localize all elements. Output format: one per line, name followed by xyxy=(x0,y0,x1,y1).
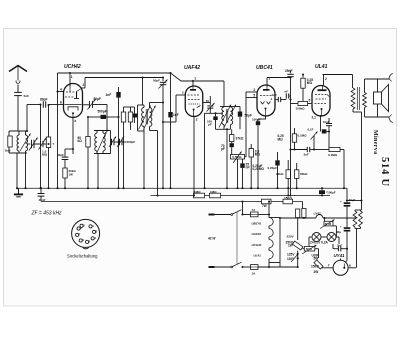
capacitor 0,1µF xyxy=(308,128,331,134)
svg-text:UBC41: UBC41 xyxy=(252,222,262,226)
pilot lamp a xyxy=(309,233,327,242)
IF2 arrows xyxy=(219,105,236,128)
label ZF xyxy=(31,211,63,217)
UBC41 pin2 xyxy=(246,88,257,92)
svg-text:40nF: 40nF xyxy=(39,198,46,202)
pin 1 wire xyxy=(69,72,73,87)
svg-text:660pF: 660pF xyxy=(127,140,136,144)
resistor 50kΩ b xyxy=(124,107,135,130)
capacitor 100µF xyxy=(319,187,336,196)
svg-text:3nF: 3nF xyxy=(304,153,310,157)
thermistor NTC xyxy=(320,217,336,237)
svg-text:50kΩ: 50kΩ xyxy=(300,172,308,176)
osc coil arrow xyxy=(97,132,107,154)
svg-text:UBC41: UBC41 xyxy=(256,65,273,71)
svg-text:0,1MΩ: 0,1MΩ xyxy=(328,153,338,157)
capacitor 1nF osc xyxy=(106,87,121,143)
antenna xyxy=(9,66,27,93)
UBC41 top wire xyxy=(267,76,292,78)
resistor 20kΩ b xyxy=(276,160,290,197)
resistor 0,25MΩ b xyxy=(278,128,297,151)
svg-text:1kΩ: 1kΩ xyxy=(5,149,11,153)
svg-text:42 W: 42 W xyxy=(207,237,216,241)
rail A xyxy=(58,72,171,74)
resistor 50kΩ a xyxy=(121,107,125,189)
svg-text:50pF: 50pF xyxy=(153,79,160,83)
mains switch lower xyxy=(231,262,251,268)
capacitor 500pF xyxy=(87,109,120,119)
svg-text:25nF: 25nF xyxy=(285,69,292,73)
resistor 37kΩ xyxy=(230,129,244,141)
mains plug lower xyxy=(209,266,232,268)
label Sockelschaltung xyxy=(67,254,98,259)
svg-text:5: 5 xyxy=(253,93,255,97)
wire osc grid xyxy=(106,105,108,132)
socket diagram xyxy=(72,219,100,248)
wire IF2 top plate xyxy=(203,112,223,189)
switch link xyxy=(236,212,238,264)
svg-text:UCH42: UCH42 xyxy=(252,243,262,247)
IF transformer 1 xyxy=(138,105,159,197)
wire NTK right xyxy=(315,249,319,258)
svg-text:*100µF: *100µF xyxy=(326,191,336,195)
capacitor 50pF b xyxy=(232,112,252,130)
svg-text:5nF: 5nF xyxy=(24,94,30,98)
svg-text:1: 1 xyxy=(71,75,73,79)
label 0,25MΩ c xyxy=(253,164,265,171)
UL41 pin2 anode xyxy=(324,75,328,86)
label 42W xyxy=(207,237,216,241)
resistor 0,5MΩ c xyxy=(249,144,260,189)
electrolytic 40µF a xyxy=(340,198,356,227)
trimmer 660pF b xyxy=(114,137,126,148)
UL41 top wire xyxy=(323,75,353,89)
resistor 1MΩ a xyxy=(194,190,205,198)
svg-text:80pF: 80pF xyxy=(94,97,101,101)
capacitor 100pF a xyxy=(207,113,218,129)
trimmer cap ant xyxy=(34,103,49,189)
UAF42 left pin xyxy=(162,91,185,123)
resistor 60kΩ xyxy=(78,117,91,189)
svg-text:nF: nF xyxy=(285,90,289,94)
svg-text:2W: 2W xyxy=(314,270,319,274)
svg-text:20kΩ: 20kΩ xyxy=(276,172,284,176)
svg-text:nF: nF xyxy=(246,165,250,169)
bus B xyxy=(151,195,331,197)
filter resistors xyxy=(353,210,362,268)
voltage select line xyxy=(287,218,298,240)
resistor 150Ω xyxy=(283,196,293,204)
output transformer xyxy=(351,87,366,112)
svg-text:2: 2 xyxy=(196,118,198,122)
svg-text:+: + xyxy=(340,224,342,228)
ground xyxy=(14,188,23,197)
wire coil to bus xyxy=(16,153,27,189)
label U300 xyxy=(312,253,320,260)
grid wire + pin 6 xyxy=(48,100,64,104)
resistor 150Ω 2W xyxy=(311,260,323,274)
svg-text:UAF42: UAF42 xyxy=(252,232,262,236)
trimmer 50pF xyxy=(150,76,168,189)
resistor 0,25MΩ a xyxy=(301,73,313,104)
svg-text:UL41: UL41 xyxy=(254,253,262,257)
rail A2 xyxy=(171,73,225,81)
svg-text:Sockelschaltung: Sockelschaltung xyxy=(67,254,98,259)
label Minerva xyxy=(372,130,378,154)
heater chain xyxy=(269,215,273,268)
wire to UY41 f xyxy=(322,264,334,268)
fuse 7A xyxy=(241,200,270,216)
svg-text:4: 4 xyxy=(60,87,62,91)
svg-text:37kΩ: 37kΩ xyxy=(236,136,244,140)
svg-text:0,25µF: 0,25µF xyxy=(268,166,278,170)
capacitor 80pF a xyxy=(26,98,48,133)
svg-text:UL41: UL41 xyxy=(315,64,328,70)
svg-text:0,1F: 0,1F xyxy=(308,128,314,132)
svg-text:6: 6 xyxy=(60,100,62,104)
IF2 sec top wire xyxy=(231,107,241,112)
label UBC41 h xyxy=(252,222,262,226)
svg-text:2: 2 xyxy=(325,77,327,81)
coil tuning arrow xyxy=(20,134,31,152)
capacitor 10nF xyxy=(323,118,332,150)
capacitor 25nF a xyxy=(240,159,249,189)
svg-text:Minerva: Minerva xyxy=(372,130,378,154)
fuse 1A xyxy=(251,263,282,276)
resistor 150kΩ xyxy=(291,99,312,111)
AGC wire xyxy=(56,73,58,189)
svg-text:MΩ: MΩ xyxy=(42,153,48,157)
svg-text:a: a xyxy=(349,263,351,267)
wire osc down xyxy=(117,142,119,189)
pin 4 wire xyxy=(56,87,63,92)
svg-text:pF: pF xyxy=(208,123,212,127)
tube UY41 xyxy=(333,253,356,275)
svg-text:40µF: 40µF xyxy=(349,198,356,202)
UAF42 right pin xyxy=(203,102,211,104)
label 514U xyxy=(379,157,390,187)
svg-text:5W: 5W xyxy=(314,256,319,260)
capacitor 5nF b xyxy=(333,237,347,262)
capacitor 60pF xyxy=(57,148,74,189)
svg-text:514 U: 514 U xyxy=(379,157,390,187)
svg-text:0,5MΩ: 0,5MΩ xyxy=(232,155,242,159)
svg-text:5: 5 xyxy=(309,99,311,103)
svg-text:1W: 1W xyxy=(288,244,293,248)
capacitor 40nF xyxy=(38,187,46,202)
tube UAF42 xyxy=(184,65,203,117)
UAF42 bottom pin xyxy=(193,116,198,197)
svg-text:150kΩ: 150kΩ xyxy=(296,106,306,110)
wire IF2 down xyxy=(226,128,228,189)
resistor 200Ω xyxy=(262,199,272,208)
svg-text:100pF: 100pF xyxy=(252,117,261,121)
voltage taps xyxy=(269,251,299,269)
mains switch upper xyxy=(231,210,251,216)
ground bus xyxy=(17,188,347,202)
svg-text:0,25MΩ: 0,25MΩ xyxy=(253,167,265,171)
pilot lamp b xyxy=(327,233,339,245)
potentiometer 0,1MΩ xyxy=(298,132,318,151)
svg-text:150Ω: 150Ω xyxy=(311,264,319,268)
capacitor 10nF b xyxy=(285,90,291,99)
svg-text:UY42: UY42 xyxy=(314,212,321,216)
resistor 1MΩ b xyxy=(210,190,221,198)
resistor 0,1MΩ b xyxy=(314,147,345,189)
svg-text:+: + xyxy=(340,200,342,204)
svg-text:ZF = 453 kHz: ZF = 453 kHz xyxy=(31,211,63,217)
label 660pF xyxy=(127,140,136,144)
svg-text:70: 70 xyxy=(206,100,210,104)
svg-text:60pF: 60pF xyxy=(57,153,64,157)
oscillator coil L2 xyxy=(94,131,111,190)
rail B xyxy=(85,77,163,79)
UBC41 pin1 xyxy=(267,76,270,86)
svg-text:UCH42: UCH42 xyxy=(64,64,81,70)
capacitor 100pF b xyxy=(252,116,266,189)
UL41 cathode pins xyxy=(312,115,321,132)
cathode wire UCH42 xyxy=(72,118,74,155)
UAF42 pin1 xyxy=(192,76,196,86)
svg-text:7W: 7W xyxy=(262,204,267,208)
svg-text:5nF: 5nF xyxy=(337,243,343,247)
tube UCH42 xyxy=(64,64,83,123)
svg-text:1: 1 xyxy=(194,76,196,80)
svg-text:UY41: UY41 xyxy=(334,253,346,258)
resistor 1kΩ xyxy=(5,136,13,153)
label lamps xyxy=(310,241,329,245)
svg-text:40µ: 40µ xyxy=(336,230,341,234)
svg-text:NTR: NTR xyxy=(325,222,332,226)
wire NTC left xyxy=(324,218,326,221)
svg-text:2×0,2V 0,2A: 2×0,2V 0,2A xyxy=(310,241,329,245)
capacitor 1nF c xyxy=(272,93,292,102)
label UL41 h xyxy=(254,253,262,257)
svg-text:80pF: 80pF xyxy=(40,98,47,102)
svg-text:500pF: 500pF xyxy=(98,109,107,113)
variable capacitor C-tune xyxy=(27,138,39,151)
potentiometer 0,5MΩ xyxy=(231,152,245,190)
capacitor 70pF b xyxy=(221,142,234,155)
dropper boxes xyxy=(296,209,306,218)
electrolytic 40µF b xyxy=(336,224,350,249)
svg-text:1MΩ: 1MΩ xyxy=(210,190,217,194)
thermistor NTK xyxy=(302,218,317,255)
IF transformer 2 xyxy=(216,81,233,129)
svg-text:2: 2 xyxy=(83,83,85,87)
wire lamps left xyxy=(308,237,310,247)
heater feed wire xyxy=(280,212,356,219)
label UCH42 h xyxy=(252,243,262,247)
mains plug upper xyxy=(209,214,232,216)
antenna coil L1 xyxy=(9,131,28,153)
wire bus C corner xyxy=(298,202,304,219)
svg-text:150Ω: 150Ω xyxy=(284,196,292,200)
resistor 20kΩ 1W xyxy=(63,168,77,178)
svg-text:1nF: 1nF xyxy=(106,93,112,97)
svg-text:2: 2 xyxy=(253,88,255,92)
svg-text:2,1: 2,1 xyxy=(312,115,317,119)
svg-text:pF: pF xyxy=(221,147,225,151)
capacitor 0,25µF a xyxy=(268,152,280,189)
capacitor 5nF xyxy=(14,85,29,131)
wire railB to IF1 xyxy=(141,76,143,105)
IF1 arrows xyxy=(139,106,156,130)
svg-text:MΩ: MΩ xyxy=(307,81,313,85)
UBC41 pin5 xyxy=(245,92,258,157)
heater chain return xyxy=(269,217,281,263)
svg-text:MΩ: MΩ xyxy=(278,137,284,141)
svg-text:kΩ: kΩ xyxy=(78,139,83,143)
tube UL41 xyxy=(312,64,330,116)
capacitor 1nF if xyxy=(168,72,178,189)
svg-text:MΩ: MΩ xyxy=(255,152,261,156)
svg-text:UAF42: UAF42 xyxy=(184,65,200,71)
capacitor 25nF b xyxy=(285,69,294,104)
capacitor blk xyxy=(133,107,138,123)
svg-text:1W: 1W xyxy=(69,172,74,176)
trimmer 660pF a xyxy=(109,137,116,148)
svg-text:1MΩ: 1MΩ xyxy=(194,190,201,194)
capacitor 3nF xyxy=(291,147,315,157)
tube UBC41 xyxy=(256,65,275,116)
svg-text:1nF: 1nF xyxy=(272,93,278,97)
label UAF42 h xyxy=(252,232,262,236)
svg-text:1: 1 xyxy=(268,76,270,80)
svg-text:0,1MΩ: 0,1MΩ xyxy=(298,134,308,138)
resistor 250Ω xyxy=(286,240,303,250)
trimmer 70pF xyxy=(206,96,215,113)
trimmer 80pF b xyxy=(82,97,107,110)
wire 290 down xyxy=(289,104,291,197)
svg-text:220V: 220V xyxy=(287,235,295,239)
resistor 50kΩ c xyxy=(295,163,309,189)
speaker xyxy=(365,74,393,123)
bus C xyxy=(41,201,303,203)
pin 2 wire xyxy=(81,78,85,89)
resistor 1,5MΩ xyxy=(42,104,55,189)
B+ wire xyxy=(346,112,363,210)
